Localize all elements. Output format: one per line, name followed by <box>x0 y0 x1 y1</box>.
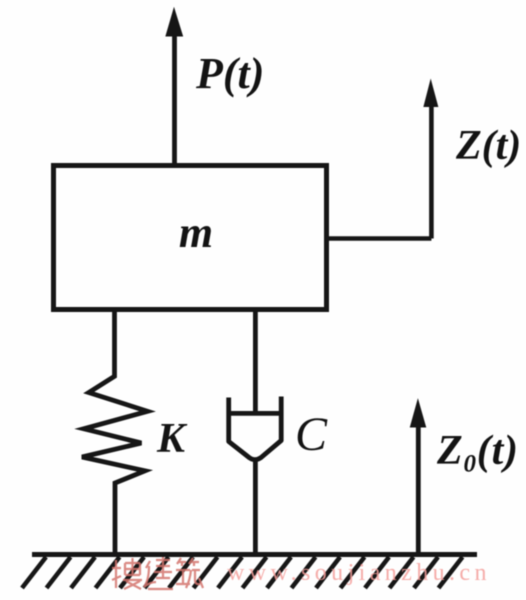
char 筑 <box>176 558 203 588</box>
watermark <box>112 557 491 589</box>
ground hatching <box>22 557 463 588</box>
svg-text:C: C <box>295 408 328 461</box>
spring K <box>82 308 148 553</box>
damper cup <box>229 397 282 460</box>
mass block m <box>54 166 327 310</box>
arrow Z0(t) <box>410 400 425 553</box>
svg-text:Z0(t): Z0(t) <box>436 428 519 478</box>
svg-text:K: K <box>156 416 188 462</box>
svg-text:m: m <box>179 208 213 257</box>
damper piston plate <box>230 411 279 416</box>
svg-text:P(t): P(t) <box>195 49 264 98</box>
damper C rod <box>253 308 258 413</box>
svg-text:www.soujianzhu.cn: www.soujianzhu.cn <box>227 560 491 586</box>
arrow P(t) <box>166 9 183 166</box>
arrow Z(t) <box>424 81 438 239</box>
char 建 <box>144 557 173 589</box>
damper lower rod <box>253 459 258 553</box>
char 搜 <box>112 558 142 589</box>
wire mass to Z(t) arrow <box>324 236 431 241</box>
svg-text:Z(t): Z(t) <box>455 123 521 169</box>
ground line <box>32 552 477 557</box>
